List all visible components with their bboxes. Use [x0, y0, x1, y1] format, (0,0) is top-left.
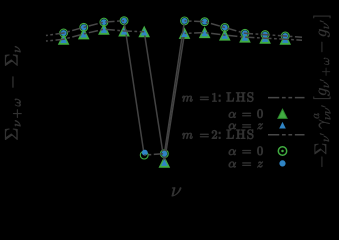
- data series: m=1 alpha=0 green triangles (12 Matsubara points): [59, 24, 291, 167]
- legend text row3: z: [257, 123, 262, 129]
- data series: m=2 alpha=0 green open circles (12 Matsubara points): [60, 17, 289, 159]
- LHS curve m=2: steep solid drop into dip (point 4 to 5): [164, 33, 184, 162]
- legend text row5: alpha: [229, 149, 236, 155]
- legend marker: m=1 alpha=z blue small triangle: [279, 122, 286, 129]
- legend text row2: 0: [257, 109, 262, 118]
- right y-axis label: -Sum_nu' gamma^a_nunu' [g_nu'+omega - g_nu'] (rotated 90): [313, 16, 330, 167]
- legend text row3: =: [242, 124, 250, 127]
- legend text row4: 2:: [212, 130, 220, 138]
- legend marker: m=2 alpha=0 green open circle: [278, 147, 286, 155]
- legend text row2: alpha: [229, 112, 236, 118]
- legend text row2: =: [242, 113, 250, 116]
- legend text row1: H: [236, 93, 245, 102]
- legend marker: m=2 alpha=0 green center dot: [281, 150, 284, 153]
- LHS curve m=2: dashed run from point 7 to right edge: [46, 21, 124, 36]
- LHS curve m=1: dashed run from left edge through points 1-5: [144, 154, 164, 155]
- legend text row4: =: [200, 134, 208, 137]
- x-axis label: nu: [172, 187, 182, 196]
- legend text row1: 1:: [212, 93, 220, 101]
- legend text row1: S: [248, 92, 254, 101]
- data series: m=1 alpha=z blue triangles (12 Matsubara points): [124, 21, 144, 155]
- legend text row5: =: [242, 150, 250, 153]
- legend text row4: m: [182, 133, 192, 139]
- legend text row1: L: [227, 93, 234, 102]
- legend text row3: alpha: [229, 123, 236, 129]
- LHS curve m=2: steep solid rise out of dip (point 6 to 7): [61, 18, 288, 157]
- legend text row6: =: [242, 163, 250, 166]
- legend text row4: L: [227, 130, 234, 139]
- legend text row5: 0: [257, 147, 262, 156]
- LHS curve m=1: steep solid drop into dip (point 5 to 6): [185, 21, 303, 37]
- legend handle: m=1 LHS dash-dot line sample: [268, 97, 305, 99]
- legend marker: m=2 alpha=z blue filled circle: [279, 160, 285, 166]
- LHS curve m=1: steep solid rise out of dip (point 6 to 7): [46, 29, 144, 41]
- legend text row1: m: [182, 96, 192, 102]
- LHS curve m=2: dashed run from left edge through points 1-4: [144, 32, 164, 162]
- legend text row6: z: [257, 162, 262, 168]
- legend marker: m=1 alpha=0 green filled triangle: [278, 109, 287, 118]
- left y-axis label: Sigma_(nu+omega) - Sigma_nu (rotated 90): [5, 46, 21, 139]
- data series: m=2 alpha=z blue circles (12 Matsubara points): [164, 21, 184, 154]
- legend text row4: H: [236, 130, 245, 139]
- LHS curve m=1: dashed run from point 7 to right edge: [185, 33, 303, 41]
- legend handle: m=2 LHS dash-dot line sample: [268, 134, 305, 136]
- LHS curve m=2: dashed run across dip bottom (point 5 to 6): [60, 26, 288, 166]
- legend text row6: alpha: [229, 162, 236, 168]
- legend text row1: =: [200, 97, 208, 100]
- legend text row4: S: [248, 129, 254, 138]
